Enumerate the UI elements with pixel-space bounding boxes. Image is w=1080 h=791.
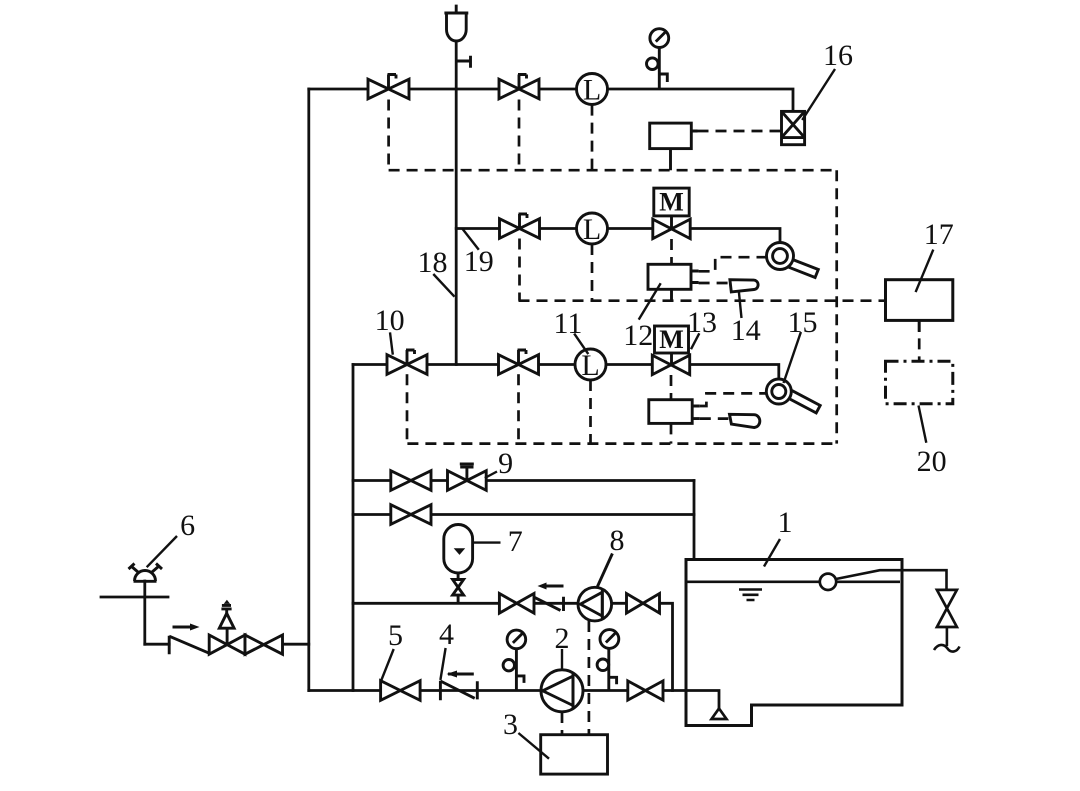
fire hydrant 6 <box>129 564 163 582</box>
wire dash controller 17 to box 20 <box>918 320 921 361</box>
valve on row9b (plain) <box>391 505 431 525</box>
water tank 1 outline with sump <box>686 560 902 726</box>
svg-text:L: L <box>581 349 599 382</box>
svg-text:11: 11 <box>554 307 583 340</box>
leader 20 <box>919 406 927 443</box>
wire dash pump8 to control box 3 <box>588 621 591 735</box>
svg-text:4: 4 <box>439 618 454 651</box>
leader 9 <box>485 472 497 479</box>
IR sensor nozzle 14a (row2) <box>730 280 758 292</box>
float arm and overflow line <box>836 570 947 590</box>
water surface mark <box>739 590 762 601</box>
wire dash valve 10 to bus3 <box>406 374 409 443</box>
foot valve in sump <box>712 709 727 720</box>
shower head 15b (row3) <box>766 379 820 413</box>
controller box 12b (row3) <box>649 400 700 424</box>
check valve on bypass (arrow left) <box>535 583 564 612</box>
wire dash box12 step to shower 15a <box>699 257 767 271</box>
spray device 16 (box with X and base) <box>782 111 805 144</box>
svg-text:12: 12 <box>623 319 653 352</box>
shower head 15a (row2) <box>767 243 819 278</box>
IR sensor nozzle 14b (row3) <box>730 414 760 427</box>
wire dash bus1 (y=170.2) <box>389 169 837 172</box>
svg-text:13: 13 <box>687 306 717 339</box>
wire dash valve A to bus1 <box>387 100 390 171</box>
svg-text:9: 9 <box>498 447 513 480</box>
wire bottom suction row (y=690.5) into tank to foot valve <box>309 691 719 709</box>
pressure gauge right of pump 2 <box>597 630 619 691</box>
svg-text:2: 2 <box>555 622 570 655</box>
leader 19 <box>462 228 479 249</box>
funnel air-break on pipe 18 <box>444 5 470 68</box>
valve 10 (row3 left, with stem) <box>387 350 427 374</box>
controller 17 <box>886 280 953 332</box>
leader 14 <box>739 292 742 318</box>
leader 12 <box>639 283 661 319</box>
valve right of pump 2 <box>628 681 663 700</box>
valve A (top row left, with stem) <box>368 75 409 99</box>
valve B (top row right, with stem) <box>499 75 539 99</box>
wire dash meter L1 to bus1 <box>591 105 594 171</box>
svg-text:15: 15 <box>788 306 818 339</box>
wire dash meter L2 to bus2 <box>591 244 594 301</box>
test valve 9 (capped) <box>448 464 487 490</box>
wire row1 main (y=89) with drop to spray box 16 <box>309 89 793 111</box>
valve C (row2, with stem) <box>500 214 540 238</box>
pressure reducing valve with relief <box>209 600 245 654</box>
svg-text:7: 7 <box>508 525 523 558</box>
controller box 12 (row2) <box>648 264 699 300</box>
svg-text:17: 17 <box>924 218 954 251</box>
wire row9b fill line (y=514.5) <box>353 513 694 516</box>
leader 15 <box>784 332 801 383</box>
wire dash M-valve 13b to box 12b <box>670 375 673 400</box>
wire supply inlet (y=644.2) <box>145 643 309 646</box>
leader 13 <box>691 333 699 349</box>
leader 4 <box>440 648 445 680</box>
leader 10 <box>390 332 393 354</box>
motor valve 13a (row2) with M actuator box <box>653 188 690 239</box>
water level line <box>686 580 900 583</box>
wire dash meter L3 (11) to bus3 <box>589 380 592 444</box>
svg-text:6: 6 <box>180 509 195 542</box>
wire bypass pump row (y=603.3) with drop at x=672.5 <box>353 603 673 690</box>
diaphragm tank 7 <box>444 525 473 604</box>
flow meter L1 (top row) <box>577 74 608 107</box>
svg-text:5: 5 <box>388 619 403 652</box>
motor valve 13b (row3) with M actuator box <box>652 325 689 375</box>
wire dash trunk x=836.7 <box>835 170 838 443</box>
svg-text:L: L <box>583 74 601 107</box>
svg-text:19: 19 <box>464 245 494 278</box>
inlet gate valve <box>245 635 283 654</box>
wire dash valve D to bus3 <box>517 374 520 443</box>
svg-text:20: 20 <box>917 445 947 478</box>
wire dash box 12b to bus3 <box>670 423 673 443</box>
wire row2 (y=228.5) with drop to shower 15a <box>456 229 780 244</box>
leader 6 <box>147 536 177 567</box>
pressure gauge left of pump 2 <box>503 630 526 690</box>
wire city main line <box>101 596 168 599</box>
check valve 4 (arrow left) <box>440 671 477 701</box>
valve 5 (suction row) <box>381 681 421 701</box>
wire dash box12b step to shower 15b <box>700 393 766 406</box>
svg-text:3: 3 <box>503 708 518 741</box>
svg-text:14: 14 <box>731 314 761 347</box>
pump 2 (main) <box>541 670 583 712</box>
wire dash M-valve 13a to box 12 <box>670 239 673 264</box>
leader 2 <box>561 649 563 670</box>
svg-text:16: 16 <box>823 39 853 72</box>
inlet strainer (slant) <box>169 636 210 654</box>
svg-text:8: 8 <box>610 524 625 557</box>
wire second riser x=353 <box>352 365 355 691</box>
overflow drain valve (vertical) <box>937 590 957 627</box>
svg-text:M: M <box>659 325 684 354</box>
control box 3 <box>541 735 608 774</box>
valve on row9 (plain) <box>391 471 431 491</box>
float ball <box>820 574 836 590</box>
wire hydrant stem <box>143 581 146 644</box>
svg-text:M: M <box>659 188 684 217</box>
leader 18 <box>433 274 454 297</box>
wire dash valve C to bus2 <box>518 239 521 301</box>
leader 7 <box>473 541 501 543</box>
svg-text:1: 1 <box>778 506 793 539</box>
wire dash bus2 (y=300.7) to controller 17 <box>519 299 886 302</box>
flow meter L2 (row2) <box>577 213 608 246</box>
wire tank fill drop x=694 <box>693 481 696 560</box>
leader 17 <box>916 250 934 293</box>
svg-text:L: L <box>583 213 601 246</box>
wire row9 fill line (y=480.5) <box>353 479 694 482</box>
wire row3 (y=364.5) with drop to shower 15b <box>353 365 779 380</box>
wire dash valve B to bus1 <box>518 100 521 171</box>
pump 8 (bypass) <box>578 554 612 621</box>
inlet flow arrow <box>173 624 200 631</box>
leader 3 <box>518 733 549 759</box>
sensor box 12a (top row) <box>650 123 698 170</box>
bypass valve (left of pump 8) <box>499 594 534 614</box>
leader 1 <box>764 539 780 567</box>
wire dash box12 to nozzle 14a <box>699 282 730 285</box>
valve D (row3, with stem) <box>499 350 539 374</box>
wire left riser x=308.8 <box>307 89 310 691</box>
leader 5 <box>381 649 393 680</box>
flow meter 11 (row3) <box>575 349 606 382</box>
wire vertical pipe 18 (from funnel to row3) <box>455 41 458 365</box>
drain stem and break symbol <box>934 627 960 652</box>
wire dash sensor box 12a to spray box 16 <box>698 130 782 133</box>
pressure gauge on top row <box>647 29 669 89</box>
bypass valve (right of pump 8) <box>627 594 660 614</box>
wire dash bus3 (y=443.6) <box>407 442 836 445</box>
svg-text:18: 18 <box>418 246 448 279</box>
leader 11 <box>574 334 588 355</box>
remote unit 20 (dash-dot box) <box>886 361 953 404</box>
svg-text:10: 10 <box>375 304 405 337</box>
wire dash pump2 to control box 3 <box>561 712 564 735</box>
wire dash box12b to nozzle 14b <box>700 417 729 420</box>
leader 16 <box>802 69 835 120</box>
